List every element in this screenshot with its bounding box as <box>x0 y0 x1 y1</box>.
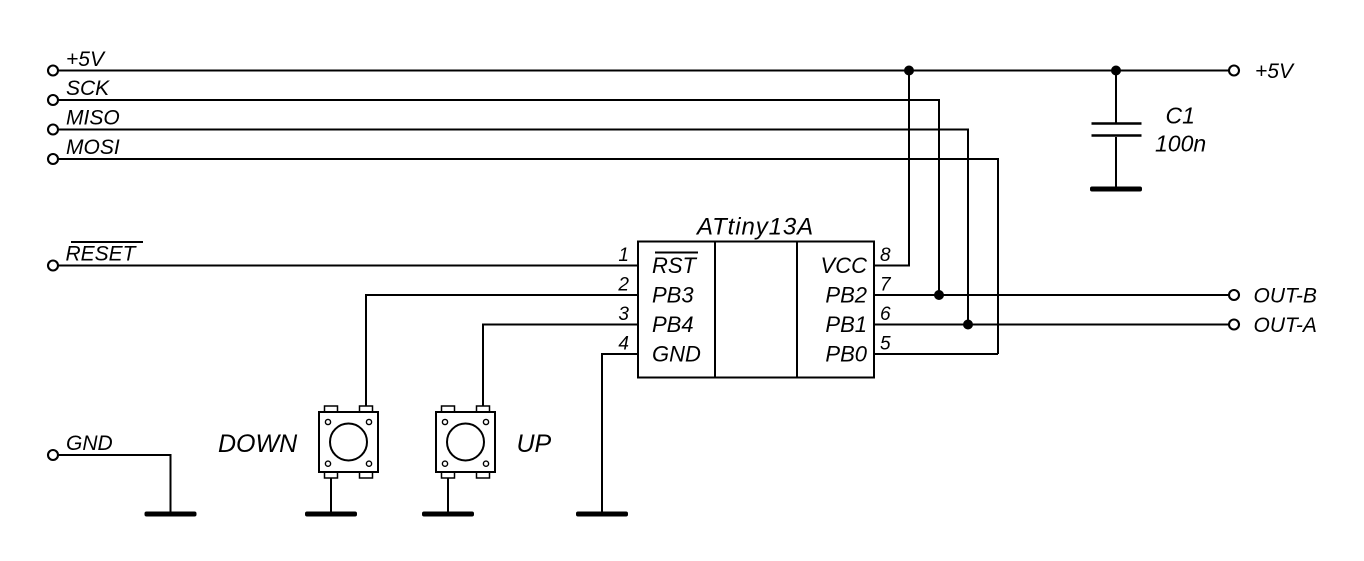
svg-text:DOWN: DOWN <box>218 430 298 458</box>
wire SCK to PB2 <box>59 100 939 295</box>
terminal GND <box>48 450 58 460</box>
terminal MISO <box>48 125 58 135</box>
ground (GND terminal) <box>145 512 197 517</box>
svg-text:GND: GND <box>652 342 701 367</box>
svg-text:3: 3 <box>618 304 629 325</box>
svg-text:OUT-B: OUT-B <box>1254 284 1317 307</box>
svg-text:PB2: PB2 <box>825 283 867 308</box>
svg-text:RST: RST <box>652 253 698 278</box>
svg-text:+5V: +5V <box>66 48 106 71</box>
wire C1 bottom lead <box>1115 137 1117 189</box>
svg-text:MOSI: MOSI <box>66 136 120 159</box>
svg-text:GND: GND <box>66 432 113 455</box>
junction dot on +5V rail at C1 <box>1111 66 1121 76</box>
svg-text:UP: UP <box>517 430 552 458</box>
junction dot on +5V rail at VCC riser <box>904 66 914 76</box>
op-amp U1 <box>638 242 874 378</box>
IC ATtiny13A body <box>638 242 874 378</box>
svg-text:2: 2 <box>617 275 629 296</box>
svg-text:RESET: RESET <box>66 243 138 266</box>
wire pin 8 VCC to +5V rail <box>874 71 909 266</box>
terminal SCK <box>48 95 58 105</box>
junction node on OUT-B wire <box>934 290 944 300</box>
svg-text:PB0: PB0 <box>825 342 867 367</box>
wire DOWN button to ground <box>330 478 332 512</box>
svg-text:4: 4 <box>618 334 629 355</box>
svg-text:SCK: SCK <box>66 77 110 100</box>
svg-text:C1: C1 <box>1166 103 1195 129</box>
svg-text:VCC: VCC <box>821 253 868 278</box>
terminal +5V right <box>1229 66 1239 76</box>
overline of RST <box>655 252 698 254</box>
wire pin 6 to OUT-A <box>874 324 1228 326</box>
wire pin 4 to ground <box>602 354 638 512</box>
svg-text:6: 6 <box>880 304 891 325</box>
wire C1 top lead <box>1115 71 1117 123</box>
ground (C1) <box>1090 187 1142 192</box>
terminal OUT-B <box>1229 290 1239 300</box>
pushbutton UP <box>436 406 495 478</box>
wire GND terminal to ground <box>59 455 171 512</box>
IC divider right <box>796 242 798 378</box>
svg-text:OUT-A: OUT-A <box>1254 314 1317 337</box>
capacitor C1 <box>1092 124 1142 136</box>
pushbutton DOWN <box>319 406 378 478</box>
svg-text:1: 1 <box>618 245 629 266</box>
svg-text:PB3: PB3 <box>652 283 694 308</box>
wire pin 2 to DOWN button <box>366 295 638 406</box>
svg-text:+5V: +5V <box>1255 60 1295 83</box>
wire pin 3 to UP button <box>483 325 638 407</box>
ground (IC pin 4) <box>576 512 628 517</box>
terminal MOSI <box>48 154 58 164</box>
ground (UP button) <box>422 512 474 517</box>
svg-text:ATtiny13A: ATtiny13A <box>695 214 814 241</box>
wire pin 5 to MOSI vertical <box>874 353 998 355</box>
svg-text:PB1: PB1 <box>825 312 867 337</box>
svg-text:100n: 100n <box>1155 131 1206 157</box>
overline of RESET <box>71 241 143 243</box>
svg-text:8: 8 <box>880 245 891 266</box>
terminal RESET <box>48 261 58 271</box>
svg-text:PB4: PB4 <box>652 312 694 337</box>
wire RESET to pin 1 <box>59 265 638 267</box>
wire UP button to ground <box>447 478 449 512</box>
svg-text:5: 5 <box>880 334 891 355</box>
terminal OUT-A <box>1229 320 1239 330</box>
junction node on OUT-A wire <box>963 320 973 330</box>
wire MISO to PB1 <box>59 130 968 325</box>
wire +5V rail <box>59 70 1228 72</box>
svg-text:7: 7 <box>880 275 892 296</box>
ground (DOWN button) <box>305 512 357 517</box>
terminal +5V left <box>48 66 58 76</box>
wire MOSI to PB0 <box>59 159 998 354</box>
wire pin 7 to OUT-B <box>874 294 1228 296</box>
IC divider left <box>714 242 716 378</box>
svg-text:MISO: MISO <box>66 107 120 130</box>
